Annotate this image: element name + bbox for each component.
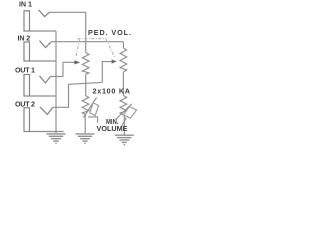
trimmer R4 body (right min volume) [120, 96, 127, 116]
trimmer R3 flag [90, 103, 99, 116]
leader line MIN VOLUME to left trimmer [88, 117, 97, 123]
wiper arrow line of right pot [102, 62, 112, 83]
jack J3 OUT1 tip contact [39, 76, 50, 83]
jack J1 IN1 sleeve rectangle [24, 11, 30, 31]
jack J2 tip contact [40, 41, 52, 48]
potentiometer R1 body [120, 48, 127, 72]
trimmer R4 adjust diagonal [116, 104, 132, 120]
dash-dot gang linkage right branch [106, 40, 115, 59]
trimmer R3 adjust diagonal [84, 98, 97, 118]
wire IN2 tip bus to both pot tops [51, 41, 123, 43]
ground symbol center [47, 134, 66, 144]
wire OUT2 sleeve to ground [30, 131, 64, 133]
ground symbol right trimmer [115, 135, 134, 145]
jack J3 OUT1 sleeve rectangle [24, 75, 30, 97]
wire IN1 tip to pot tops [50, 12, 86, 52]
trimmer R4 flag [123, 107, 136, 119]
potentiometer R2 bottom lead [85, 74, 87, 95]
jack J4 OUT2 sleeve rectangle [24, 108, 30, 132]
trimmer R4 bottom stem [123, 115, 125, 135]
wire ground bus vertical [55, 31, 57, 133]
svg-text:PED. VOL.: PED. VOL. [88, 28, 131, 37]
wire right pot wiper to OUT2 [53, 82, 103, 107]
wire OUT1 tip [51, 76, 63, 78]
wire OUT1 sleeve to ground bus [30, 95, 57, 97]
wire IN2 sleeve to ground bus [30, 60, 57, 62]
jack J1 tip contact [39, 10, 51, 17]
jack J4 OUT2 tip contact [40, 107, 53, 114]
wiper arrowhead left pot [74, 60, 80, 64]
svg-text:OUT 1: OUT 1 [15, 65, 35, 74]
svg-text:IN 1: IN 1 [19, 0, 32, 8]
jack J2 IN2 sleeve rectangle [24, 42, 30, 61]
wiper arrow line of left pot to OUT1 [63, 62, 75, 76]
wiper arrowhead right pot [112, 59, 117, 63]
potentiometer R1 bottom lead [122, 72, 124, 96]
trimmer R3 bottom stem [84, 115, 86, 134]
svg-text:OUT 2: OUT 2 [15, 99, 35, 108]
dash-dot gang linkage left branch [76, 40, 80, 58]
wire IN1 sleeve to ground bus [30, 30, 57, 32]
potentiometer R1 top lead [122, 42, 124, 48]
dash-dot gang linkage horizontal [78, 38, 107, 40]
svg-text:VOLUME: VOLUME [97, 124, 128, 133]
svg-text:IN 2: IN 2 [18, 33, 31, 42]
ground symbol left trimmer [76, 134, 95, 144]
trimmer R3 body (left min volume) [82, 96, 89, 115]
potentiometer R2 body (left) [82, 53, 89, 75]
leader line MIN VOLUME to right trimmer [121, 118, 126, 127]
svg-text:2x100 KA: 2x100 KA [93, 86, 131, 95]
